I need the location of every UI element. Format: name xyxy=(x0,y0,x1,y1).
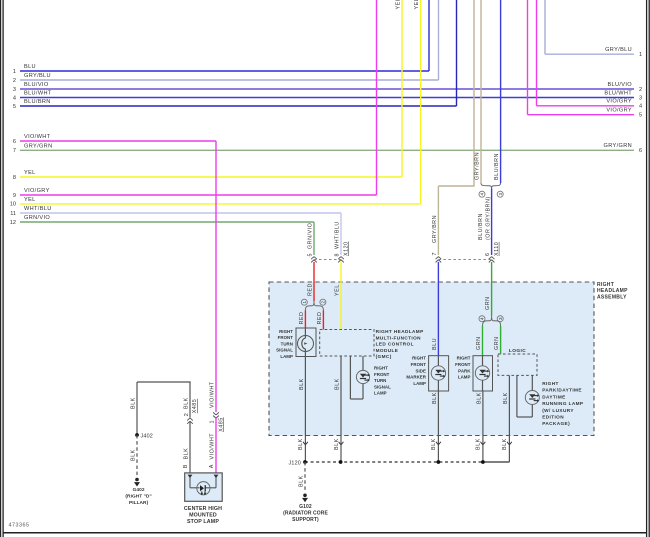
svg-text:VIO/WHT: VIO/WHT xyxy=(210,433,216,460)
brace split RED xyxy=(305,301,323,311)
wire VIO/WHT lower xyxy=(209,417,216,473)
svg-text:LAMP: LAMP xyxy=(413,381,426,386)
wire right 3 BLU/WHT label xyxy=(604,90,642,101)
svg-text:3: 3 xyxy=(13,87,16,93)
wire left 4 BLU/WHT xyxy=(13,91,634,102)
svg-text:MODULE: MODULE xyxy=(376,348,399,353)
svg-text:BLU: BLU xyxy=(432,338,438,350)
svg-text:3: 3 xyxy=(498,317,503,320)
connector X120 link xyxy=(314,259,341,261)
svg-text:5: 5 xyxy=(13,104,16,110)
border frame left inner xyxy=(2,0,4,537)
svg-text:RIGHT: RIGHT xyxy=(374,366,388,371)
svg-text:B: B xyxy=(183,464,189,468)
svg-text:GRY/BRN: GRY/BRN xyxy=(475,152,481,180)
svg-text:RIGHT: RIGHT xyxy=(412,356,426,361)
connector X110 link xyxy=(438,259,491,261)
svg-text:BLK: BLK xyxy=(299,378,305,390)
svg-text:4: 4 xyxy=(480,192,485,195)
svg-text:PACKAGE): PACKAGE) xyxy=(542,421,570,426)
svg-text:X485: X485 xyxy=(192,399,198,414)
side marker LED symbol xyxy=(431,356,445,391)
wire BLK stop lamp lower xyxy=(183,422,190,473)
junction bus J120 xyxy=(289,460,510,466)
svg-text:GRY/BLU: GRY/BLU xyxy=(605,47,632,53)
wire right 6 GRY/GRN label xyxy=(604,143,643,154)
svg-text:4: 4 xyxy=(13,95,16,101)
svg-text:BLU/BRN: BLU/BRN xyxy=(494,153,500,180)
svg-text:9: 9 xyxy=(13,193,16,199)
wire right 4 VIO/GRY xyxy=(537,99,643,110)
svg-text:STOP LAMP: STOP LAMP xyxy=(187,519,219,525)
connector X120 pin 5 xyxy=(311,257,317,263)
pin 4 circle lower xyxy=(479,316,485,322)
svg-text:6: 6 xyxy=(13,139,16,145)
wire BLK to G102 xyxy=(299,462,305,492)
wire vertical VIO/GRY xyxy=(376,0,378,195)
wire BLK to J402 xyxy=(131,382,137,435)
svg-text:YEL: YEL xyxy=(335,284,341,296)
svg-text:SUPPORT): SUPPORT) xyxy=(292,517,319,523)
svg-text:FRONT: FRONT xyxy=(374,372,390,377)
pin 3 circle xyxy=(497,191,503,197)
svg-text:CENTER HIGH: CENTER HIGH xyxy=(184,506,222,512)
DRL lamp label xyxy=(542,381,583,426)
svg-text:RIGHT: RIGHT xyxy=(457,356,471,361)
svg-text:6: 6 xyxy=(639,148,642,154)
wire vertical GRY/BRN pin4 xyxy=(475,0,481,183)
svg-text:DAYTIME: DAYTIME xyxy=(542,394,565,399)
wire vertical YEL 1 xyxy=(396,0,403,177)
svg-text:RED: RED xyxy=(307,283,313,296)
right front turn signal LED lamp xyxy=(350,356,369,399)
svg-text:SIDE: SIDE xyxy=(416,368,426,373)
svg-text:GRN: GRN xyxy=(476,337,482,350)
svg-text:BLK: BLK xyxy=(502,438,508,450)
wire left 6 VIO/WHT xyxy=(13,134,216,145)
wire vertical GRY/BRN jog xyxy=(432,0,475,255)
wire vertical BLU xyxy=(428,0,430,71)
svg-text:BLK: BLK xyxy=(335,378,341,390)
wire left 12 GRN/VIO xyxy=(10,215,314,226)
svg-text:GRY/GRN: GRY/GRN xyxy=(604,143,632,149)
svg-text:BLK: BLK xyxy=(183,448,189,460)
svg-text:LED CONTROL: LED CONTROL xyxy=(376,342,414,347)
svg-text:RIGHT: RIGHT xyxy=(597,282,614,288)
svg-text:MOUNTED: MOUNTED xyxy=(189,512,217,518)
svg-text:473365: 473365 xyxy=(9,523,30,529)
svg-text:2: 2 xyxy=(13,78,16,84)
right front side marker lamp box xyxy=(429,356,449,391)
border frame right inner xyxy=(646,0,648,537)
wire GRN/VIO drop xyxy=(308,222,315,257)
svg-text:G102: G102 xyxy=(299,504,312,510)
svg-text:1: 1 xyxy=(210,420,216,424)
svg-text:VIO/GRY: VIO/GRY xyxy=(606,108,632,114)
sheet number 473365 xyxy=(9,523,30,529)
wire right 5 VIO/GRY xyxy=(528,108,643,119)
svg-text:VIO/GRY: VIO/GRY xyxy=(24,188,50,194)
svg-text:GRY/BLU: GRY/BLU xyxy=(24,73,51,79)
svg-text:X120: X120 xyxy=(343,241,349,256)
svg-text:2: 2 xyxy=(639,87,642,93)
junction J402 xyxy=(135,433,153,439)
wire BLK drop 2 xyxy=(334,356,344,462)
svg-text:TURN: TURN xyxy=(281,341,293,346)
border frame bottom xyxy=(3,532,647,534)
right front park lamp box xyxy=(473,356,493,391)
svg-text:(RIGHT "D": (RIGHT "D" xyxy=(125,494,151,500)
svg-text:J402: J402 xyxy=(141,433,154,439)
svg-text:3: 3 xyxy=(639,95,642,101)
svg-text:VIO/WHT: VIO/WHT xyxy=(210,381,216,408)
logic box xyxy=(498,348,537,375)
wire RED branch 2 xyxy=(317,311,324,330)
svg-text:BLK: BLK xyxy=(432,392,438,404)
wire left 1 BLU xyxy=(13,64,429,75)
svg-text:7: 7 xyxy=(432,252,438,256)
svg-text:YEL: YEL xyxy=(396,0,402,10)
svg-text:8: 8 xyxy=(13,175,16,181)
svg-text:GRY/GRN: GRY/GRN xyxy=(24,143,52,149)
pin 1 circle xyxy=(301,299,307,305)
svg-text:BLK: BLK xyxy=(334,438,340,450)
svg-text:ASSEMBLY: ASSEMBLY xyxy=(597,295,627,301)
svg-text:HEADLAMP: HEADLAMP xyxy=(597,288,628,294)
wire WHT/BLU drop xyxy=(335,213,350,257)
svg-text:MULTI-FUNCTION: MULTI-FUNCTION xyxy=(376,335,422,340)
svg-text:1: 1 xyxy=(13,69,16,75)
wire VIO/WHT drop xyxy=(210,141,217,412)
connector X110 pin 7 xyxy=(432,252,441,262)
wire GRN branch 3 xyxy=(494,326,501,354)
connector X120 pin 8 xyxy=(338,257,344,263)
wire BLK stop lamp top xyxy=(137,382,198,418)
svg-text:BLK: BLK xyxy=(183,397,189,409)
LED control module label xyxy=(376,329,424,359)
svg-text:12: 12 xyxy=(10,220,16,226)
side marker lamp label xyxy=(406,356,426,386)
park lamp LED symbol xyxy=(475,356,489,391)
svg-text:FRONT: FRONT xyxy=(278,335,294,340)
svg-text:A: A xyxy=(209,464,215,468)
svg-text:LAMP: LAMP xyxy=(458,375,471,380)
svg-text:1: 1 xyxy=(302,300,307,303)
wire left 11 WHT/BLU xyxy=(10,206,341,217)
pin 4 circle xyxy=(479,191,485,197)
wire GRN main xyxy=(485,262,492,316)
wire right 1 GRY/BLU xyxy=(545,47,642,58)
DRL LED lamp xyxy=(517,375,539,417)
svg-text:RED: RED xyxy=(317,312,323,325)
svg-text:5: 5 xyxy=(639,113,642,119)
right headlamp assembly box xyxy=(269,282,594,436)
svg-text:GRN: GRN xyxy=(494,337,500,350)
wire BLK drop 4 xyxy=(476,391,486,462)
pin 3 circle lower xyxy=(497,316,503,322)
connector X110 pin 6 xyxy=(485,242,500,263)
svg-text:BLK: BLK xyxy=(298,438,304,450)
wire BLK drop 3 xyxy=(431,391,441,462)
wire left 7 GRY/GRN xyxy=(13,143,634,154)
svg-text:BLU/VIO: BLU/VIO xyxy=(24,82,49,88)
svg-text:MARKER: MARKER xyxy=(406,375,426,380)
wire left 10 YEL xyxy=(10,197,421,208)
pin 2 circle xyxy=(320,299,326,305)
wire vertical GRY/BLU right xyxy=(544,0,546,54)
svg-text:(OR GRY/BRN): (OR GRY/BRN) xyxy=(486,196,492,240)
connector X485 pin 2 xyxy=(187,418,193,424)
svg-text:BLU/BRN: BLU/BRN xyxy=(478,213,484,240)
svg-text:4: 4 xyxy=(639,104,642,110)
svg-text:BLU/BRN: BLU/BRN xyxy=(24,99,51,105)
svg-text:4: 4 xyxy=(480,317,485,320)
svg-text:X485: X485 xyxy=(218,417,224,432)
svg-text:8 WHT/BLU: 8 WHT/BLU xyxy=(335,221,341,256)
wire vertical VIO/GRY right4 xyxy=(536,0,538,106)
svg-text:WHT/BLU: WHT/BLU xyxy=(24,206,52,212)
svg-text:6: 6 xyxy=(485,253,491,257)
wire vertical BLU/BRN left xyxy=(456,0,458,106)
svg-text:5 GRN/VIO: 5 GRN/VIO xyxy=(308,223,314,257)
svg-text:TURN: TURN xyxy=(374,378,386,383)
svg-text:3: 3 xyxy=(498,192,503,195)
connector X485 pin 1 xyxy=(210,412,225,432)
brace merge GRY/BRN+BLU/BRN xyxy=(481,183,501,189)
wire RED main xyxy=(307,262,314,301)
wire left 9 VIO/GRY xyxy=(13,188,377,199)
svg-text:BLU/WHT: BLU/WHT xyxy=(604,90,632,96)
turn signal bulb symbol xyxy=(298,328,314,357)
svg-text:GRY/BRN: GRY/BRN xyxy=(432,215,438,243)
svg-text:(W/ LUXURY: (W/ LUXURY xyxy=(542,408,574,413)
svg-text:J120: J120 xyxy=(289,460,302,466)
svg-text:X110: X110 xyxy=(494,242,500,256)
wire vertical GRY/BLU left xyxy=(438,0,440,80)
svg-text:GRN/VIO: GRN/VIO xyxy=(24,215,50,221)
wire right 2 BLU/VIO label xyxy=(607,82,642,93)
svg-text:FRONT: FRONT xyxy=(411,362,427,367)
svg-text:BLK: BLK xyxy=(477,392,483,404)
ground G402 xyxy=(125,478,151,507)
wire left 3 BLU/VIO xyxy=(13,82,634,93)
svg-text:BLK: BLK xyxy=(299,475,305,487)
wire BLK drop 1 xyxy=(298,357,308,463)
svg-text:(GMC): (GMC) xyxy=(376,354,392,359)
wire left 8 YEL xyxy=(13,170,402,181)
svg-text:EDITION: EDITION xyxy=(542,415,564,420)
svg-text:LAMP: LAMP xyxy=(280,354,293,359)
svg-text:RIGHT: RIGHT xyxy=(542,381,559,386)
svg-text:2: 2 xyxy=(184,413,190,417)
wire BLK drop 5 xyxy=(502,375,512,462)
svg-text:YEL: YEL xyxy=(24,197,36,203)
wire BLU side marker xyxy=(432,262,439,356)
svg-text:(RADIATOR CORE: (RADIATOR CORE xyxy=(283,510,328,516)
turn signal LED label xyxy=(374,366,391,396)
svg-text:BLK: BLK xyxy=(431,438,437,450)
center high mounted stop lamp box xyxy=(185,473,223,501)
wire left 2 GRY/BLU xyxy=(13,73,439,84)
svg-text:11: 11 xyxy=(10,211,16,217)
svg-text:VIO/GRY: VIO/GRY xyxy=(606,99,632,105)
svg-text:PARK: PARK xyxy=(458,368,471,373)
svg-text:LAMP: LAMP xyxy=(374,391,387,396)
svg-text:BLK: BLK xyxy=(476,438,482,450)
svg-text:PILLAR): PILLAR) xyxy=(129,500,149,506)
wire GRN branch 4 xyxy=(476,326,483,356)
ground G102 xyxy=(283,494,328,524)
wire BLU/BRN merged xyxy=(478,189,492,256)
svg-text:10: 10 xyxy=(10,202,16,208)
svg-text:VIO/WHT: VIO/WHT xyxy=(24,134,51,140)
wire BLK J402 to G402 xyxy=(131,435,137,477)
right front turn signal lamp label xyxy=(276,329,293,359)
wire vertical BLU/BRN pin3 xyxy=(494,0,500,183)
svg-text:PARK/DAYTIME: PARK/DAYTIME xyxy=(542,388,582,393)
svg-text:SIGNAL: SIGNAL xyxy=(374,384,391,389)
border frame right outer xyxy=(648,0,650,537)
brace split GRN xyxy=(483,316,501,327)
wire YEL into module xyxy=(335,262,342,330)
right headlamp assembly label xyxy=(597,282,628,301)
wire RED branch 1 xyxy=(299,311,306,329)
svg-text:2: 2 xyxy=(321,300,326,303)
right headlamp multi-function LED control module box xyxy=(320,330,374,357)
svg-text:YEL: YEL xyxy=(24,170,36,176)
svg-text:SIGNAL: SIGNAL xyxy=(276,348,293,353)
svg-text:BLU: BLU xyxy=(24,64,36,70)
svg-text:BLU/WHT: BLU/WHT xyxy=(24,91,52,97)
stop lamp label xyxy=(184,506,222,525)
svg-text:FRONT: FRONT xyxy=(455,362,471,367)
svg-text:GRN: GRN xyxy=(485,297,491,310)
svg-text:BLK: BLK xyxy=(131,449,137,461)
wire vertical VIO/GRY right5 xyxy=(527,0,529,115)
wire vertical YEL 2 xyxy=(414,0,421,204)
svg-text:RIGHT: RIGHT xyxy=(279,329,293,334)
border frame left outer xyxy=(0,0,2,537)
svg-text:RUNNING LAMP: RUNNING LAMP xyxy=(542,401,583,406)
wire left 5 BLU/BRN xyxy=(13,99,457,110)
svg-text:RED: RED xyxy=(299,312,305,325)
stop lamp internal wiring xyxy=(190,478,216,496)
right front turn signal lamp box xyxy=(296,328,316,357)
svg-text:YEL: YEL xyxy=(414,0,420,10)
park lamp label xyxy=(455,356,471,380)
svg-text:7: 7 xyxy=(13,148,16,154)
svg-text:RIGHT HEADLAMP: RIGHT HEADLAMP xyxy=(376,329,424,334)
stop lamp pin arrows xyxy=(188,475,219,479)
svg-text:1: 1 xyxy=(639,52,642,58)
svg-text:G402: G402 xyxy=(133,487,145,493)
svg-text:BLK: BLK xyxy=(503,392,509,404)
svg-text:BLK: BLK xyxy=(131,397,137,409)
svg-text:LOGIC: LOGIC xyxy=(509,348,526,354)
svg-text:BLU/VIO: BLU/VIO xyxy=(607,82,632,88)
